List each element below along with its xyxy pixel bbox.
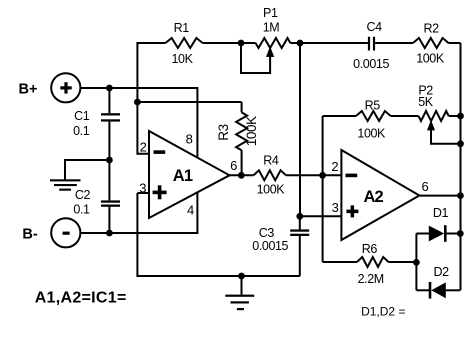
svg-text:100K: 100K bbox=[257, 183, 286, 197]
potentiometer P2 element bbox=[419, 111, 449, 121]
node R1/P1 junction bbox=[238, 40, 245, 47]
wire top-left corner to A1 pin 2 stub bbox=[137, 43, 165, 154]
node C2/B- bbox=[106, 230, 113, 237]
wire R5 to P2 bbox=[391, 115, 419, 117]
svg-text:0.1: 0.1 bbox=[73, 124, 90, 138]
resistor R4 bbox=[254, 170, 287, 180]
node P2 right rail bbox=[457, 113, 464, 120]
node P2 wiper rail bbox=[457, 140, 464, 147]
A1 non-inverting input mark bbox=[153, 191, 167, 195]
wire C1 bottom lead bbox=[108, 122, 110, 160]
wire P2 to right rail bbox=[449, 115, 461, 117]
wire A1 pin3 to ground run bbox=[137, 193, 300, 276]
node A2 pin3 / C3 bbox=[296, 213, 303, 220]
svg-text:R6: R6 bbox=[362, 242, 378, 256]
wire C2 top lead bbox=[108, 160, 110, 200]
svg-text:6: 6 bbox=[230, 158, 237, 173]
node ground junction bbox=[238, 273, 245, 280]
wire R5 left lead bbox=[323, 115, 356, 117]
svg-text:A1,A2=IC1=: A1,A2=IC1= bbox=[35, 290, 127, 307]
wire P1 right to A2 pin 3 bbox=[299, 43, 301, 216]
resistor R5 bbox=[356, 111, 391, 121]
svg-text:R5: R5 bbox=[365, 98, 381, 112]
svg-text:D1,D2 =: D1,D2 = bbox=[361, 305, 405, 319]
svg-text:P1: P1 bbox=[263, 6, 278, 20]
svg-text:C3: C3 bbox=[259, 226, 275, 240]
A1 pin 3 stub bbox=[137, 192, 150, 194]
svg-text:0.0015: 0.0015 bbox=[252, 239, 288, 253]
node B+/C1 bbox=[106, 85, 113, 92]
svg-text:3: 3 bbox=[332, 200, 339, 215]
node P1 right / A2 non-inv branch bbox=[297, 40, 304, 47]
node C1/C2/ground bbox=[106, 157, 113, 164]
node R6 / diodes bbox=[413, 259, 420, 266]
wire D1 to rail bbox=[447, 233, 461, 235]
ground G1 bbox=[50, 179, 81, 181]
svg-text:R2: R2 bbox=[424, 22, 440, 36]
svg-text:R4: R4 bbox=[263, 154, 279, 168]
op-amp A1 body bbox=[149, 131, 230, 218]
wire ground spur bbox=[65, 160, 109, 180]
wire R1 to P1 bbox=[203, 42, 256, 44]
wire diode left column bbox=[415, 234, 417, 291]
wire R3 bottom lead bbox=[241, 150, 243, 175]
P2 wiper return wire bbox=[431, 129, 461, 144]
wire C1 top lead bbox=[108, 88, 110, 113]
svg-text:B+: B+ bbox=[19, 82, 38, 98]
terminal B- bbox=[51, 218, 80, 247]
wire A1 output to R4 bbox=[230, 174, 254, 176]
svg-text:2: 2 bbox=[331, 159, 338, 174]
op-amp A2 body bbox=[341, 150, 419, 240]
P2 wiper arrow bbox=[427, 120, 435, 131]
wire C4 to R2 bbox=[375, 42, 413, 44]
wire P1 to C4 bbox=[290, 42, 368, 44]
wire R6 to diode column bbox=[389, 261, 417, 263]
wire B+ to A1 pin 8 bbox=[80, 88, 197, 159]
resistor R6 bbox=[357, 257, 389, 267]
svg-text:100K: 100K bbox=[357, 127, 386, 141]
wire A2 inv branch vertical bbox=[322, 116, 324, 262]
wire D2 left lead bbox=[416, 289, 429, 291]
wire A2 output bbox=[419, 195, 460, 197]
svg-text:0.1: 0.1 bbox=[73, 203, 90, 217]
node pin2/feedback bbox=[134, 99, 141, 106]
svg-text:2: 2 bbox=[140, 140, 147, 155]
wire C3 top lead bbox=[299, 216, 301, 229]
svg-text:A1: A1 bbox=[173, 167, 193, 185]
wire C3 bottom lead bbox=[299, 236, 301, 276]
svg-text:R3: R3 bbox=[216, 124, 231, 140]
svg-text:100K: 100K bbox=[416, 52, 445, 66]
A2 inverting input mark bbox=[346, 174, 358, 178]
A2 non-inverting input mark bbox=[346, 210, 358, 214]
wire B- to A1 pin 4 bbox=[80, 192, 197, 233]
svg-text:C1: C1 bbox=[74, 109, 90, 123]
ground G2 stub bbox=[241, 276, 243, 295]
svg-text:10K: 10K bbox=[171, 52, 193, 66]
svg-text:4: 4 bbox=[187, 203, 194, 218]
node A1 out / R3 bbox=[238, 172, 245, 179]
wire A2 pin 3 stub bbox=[300, 215, 342, 217]
wire C2 bottom lead bbox=[108, 207, 110, 233]
svg-text:8: 8 bbox=[186, 131, 193, 146]
svg-text:A2: A2 bbox=[363, 188, 383, 206]
wire R4 to A2 pin 2 bbox=[286, 174, 341, 176]
node A2 output rail bbox=[457, 192, 464, 199]
svg-text:B-: B- bbox=[22, 227, 37, 243]
resistor R2 bbox=[413, 38, 449, 48]
wire D2 to rail bbox=[446, 289, 461, 291]
wire R3 top lead bbox=[241, 102, 243, 112]
P1 wiper return wire bbox=[241, 44, 270, 73]
svg-text:1M: 1M bbox=[263, 21, 280, 35]
resistor R1 bbox=[166, 38, 203, 48]
svg-text:C4: C4 bbox=[367, 20, 383, 34]
wire R6 left lead bbox=[323, 261, 357, 263]
capacitor C1 bbox=[101, 113, 120, 115]
node D1 rail bbox=[457, 230, 464, 237]
wire A1 pin2 node to R3 bbox=[137, 101, 241, 103]
node A2 inverting input bbox=[319, 172, 326, 179]
svg-text:100K: 100K bbox=[244, 116, 259, 146]
potentiometer P1 element bbox=[256, 38, 291, 48]
svg-text:D1: D1 bbox=[433, 206, 449, 220]
svg-text:6: 6 bbox=[421, 179, 428, 194]
svg-text:C2: C2 bbox=[75, 188, 91, 202]
svg-text:D2: D2 bbox=[434, 265, 450, 279]
capacitor C2 bbox=[101, 200, 120, 202]
svg-text:0.0015: 0.0015 bbox=[353, 57, 389, 71]
diode D2 bbox=[429, 282, 432, 299]
resistor R3 bbox=[236, 112, 247, 150]
P1 wiper arrow bbox=[266, 46, 274, 57]
svg-text:5K: 5K bbox=[418, 95, 434, 109]
svg-text:R1: R1 bbox=[174, 21, 190, 35]
svg-text:2.2M: 2.2M bbox=[358, 272, 384, 286]
capacitor C3 bbox=[290, 229, 309, 231]
diode D1 bbox=[429, 226, 444, 242]
wire D1 left lead bbox=[416, 233, 429, 235]
ground G2 bbox=[225, 295, 254, 297]
terminal B+ bbox=[51, 73, 80, 102]
A1 inverting input mark bbox=[154, 150, 166, 154]
wire R2 to right rail bbox=[449, 42, 461, 44]
capacitor C4 bbox=[368, 37, 370, 51]
wire right rail bbox=[460, 43, 462, 290]
